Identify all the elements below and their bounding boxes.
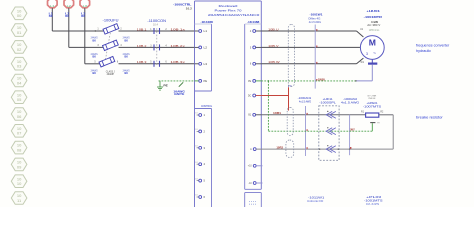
svg-text:-1011W1: -1011W1 [308, 195, 325, 199]
svg-text:10B.V: 10B.V [268, 44, 279, 48]
svg-text:+HIF11: +HIF11 [323, 97, 334, 101]
svg-text:PE: PE [163, 85, 168, 88]
svg-text:10B.U: 10B.U [268, 27, 279, 31]
svg-text:06: 06 [17, 114, 22, 119]
svg-text:DC: DC [248, 95, 252, 97]
svg-text:09: 09 [17, 164, 22, 169]
svg-text:01: 01 [17, 30, 22, 35]
svg-text:BK: BK [65, 14, 69, 18]
svg-text:-1001W1: -1001W1 [310, 12, 323, 16]
svg-text:AC 380 V: AC 380 V [367, 23, 380, 27]
svg-text:05: 05 [17, 97, 22, 102]
svg-text:-1000SPL: -1000SPL [319, 101, 336, 105]
svg-text:10B.1: 10B.1 [137, 27, 147, 31]
svg-text:BK: BK [81, 14, 85, 18]
svg-text:-1000CTRL: -1000CTRL [173, 3, 191, 7]
svg-text:10.4: 10.4 [153, 25, 159, 27]
svg-text:07: 07 [17, 131, 22, 136]
svg-text:M: M [369, 37, 376, 47]
svg-text:BK: BK [93, 38, 97, 42]
svg-text:10B.2: 10B.2 [137, 44, 147, 48]
svg-text:BK: BK [125, 71, 129, 75]
svg-text:-1007MTS: -1007MTS [363, 105, 381, 109]
svg-text:10.2: 10.2 [186, 7, 193, 10]
svg-text:BK: BK [93, 71, 97, 75]
svg-text:L1: L1 [50, 4, 55, 8]
svg-text:10: 10 [17, 181, 22, 186]
svg-text:4x1.5 AWG: 4x1.5 AWG [341, 101, 359, 105]
svg-text:00: 00 [17, 13, 22, 18]
svg-text:10B.2x: 10B.2x [170, 44, 185, 48]
svg-text:1W05: 1W05 [318, 77, 326, 81]
svg-text:BK: BK [125, 55, 129, 59]
svg-text:10B.1x: 10B.1x [170, 27, 185, 31]
svg-text:04: 04 [17, 80, 22, 85]
svg-text:08: 08 [17, 148, 22, 153]
svg-text:hydraulic: hydraulic [416, 49, 431, 53]
svg-text:10B.3: 10B.3 [137, 60, 147, 64]
svg-text:Olflex 4G: Olflex 4G [308, 16, 320, 20]
svg-text:40AMP: 40AMP [107, 73, 115, 76]
svg-text:BK: BK [49, 14, 53, 18]
svg-text:Rockwell: Rockwell [219, 4, 238, 8]
svg-text:10B.3x: 10B.3x [170, 60, 185, 64]
svg-text:PE: PE [204, 79, 208, 83]
svg-text:CONTROL: CONTROL [201, 104, 212, 108]
svg-text:-1001MTR: -1001MTR [364, 15, 383, 19]
svg-text:2NN BN: 2NN BN [368, 98, 375, 100]
svg-text:02: 02 [17, 47, 22, 52]
svg-text:-1100CON: -1100CON [147, 19, 166, 23]
svg-text:10R2: 10R2 [276, 146, 283, 150]
svg-text:frequence converter: frequence converter [416, 43, 450, 47]
svg-text:BK: BK [93, 55, 97, 59]
svg-text:4x1.5 AWG: 4x1.5 AWG [299, 100, 311, 104]
svg-text:PE: PE [248, 81, 252, 83]
svg-text:L3: L3 [83, 4, 88, 8]
svg-text:1455 r/min: 1455 r/min [369, 29, 380, 32]
svg-text:03: 03 [17, 64, 22, 69]
svg-text:-100UFU: -100UFU [103, 18, 120, 22]
svg-text:L2: L2 [67, 4, 72, 8]
svg-text:-1000AN2: -1000AN2 [343, 97, 358, 101]
svg-text:4x1.5 AWG: 4x1.5 AWG [309, 20, 321, 24]
svg-text:GN/YE: GN/YE [174, 92, 185, 96]
svg-text:-1K4488: -1K4488 [200, 20, 213, 24]
svg-text:BK: BK [125, 38, 129, 42]
svg-text:+HU01: +HU01 [366, 9, 380, 13]
svg-text:Unitronic FD: Unitronic FD [307, 199, 323, 203]
svg-text:breake resistor: breake resistor [416, 116, 444, 120]
svg-text:-1001MTS: -1001MTS [364, 199, 383, 203]
svg-text:10R1: 10R1 [273, 111, 282, 115]
svg-text:10B.W: 10B.W [268, 60, 280, 64]
svg-text:3: 3 [366, 52, 368, 56]
svg-text:~: ~ [373, 51, 376, 57]
svg-text:20A554C4A0AYNANC0: 20A554C4A0AYNANC0 [208, 13, 260, 17]
svg-text:1W07: 1W07 [350, 128, 355, 132]
svg-text:Power Flex 70: Power Flex 70 [215, 9, 242, 13]
svg-text:-1K4488: -1K4488 [247, 20, 260, 24]
svg-text:RJ45: RJ45 [366, 202, 380, 206]
